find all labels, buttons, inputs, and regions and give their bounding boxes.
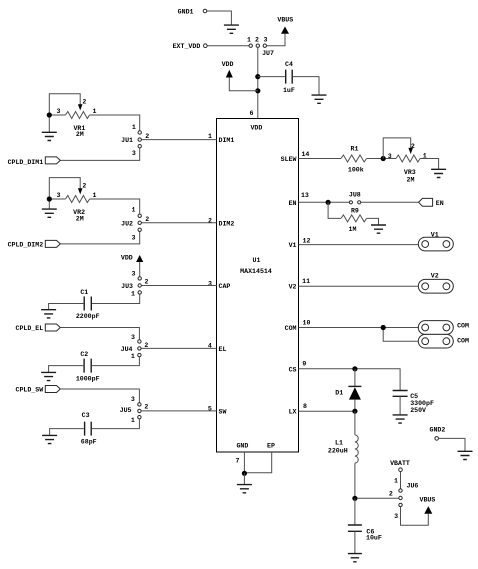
wire U1 CS pin9: [299, 369, 401, 391]
ground (C3): [42, 435, 57, 443]
wire VR2 to ground: [48, 202, 50, 210]
svg-text:2: 2: [255, 37, 259, 44]
svg-text:68pF: 68pF: [81, 439, 97, 446]
svg-text:R9: R9: [351, 208, 359, 215]
svg-text:2: 2: [145, 133, 149, 140]
svg-text:D1: D1: [335, 389, 343, 396]
svg-text:1: 1: [132, 124, 136, 131]
resistor R1: [341, 155, 367, 162]
potentiometer VR2: [49, 198, 65, 200]
svg-text:2: 2: [144, 404, 148, 411]
power VDD arrow (top): [226, 70, 233, 78]
svg-text:3: 3: [388, 153, 392, 160]
potentiometer VR3: [396, 155, 420, 162]
ground (C6): [348, 554, 362, 562]
svg-text:VBUS: VBUS: [277, 17, 293, 24]
wire U1 SLEW pin14: [299, 158, 342, 160]
svg-text:C3: C3: [82, 412, 90, 419]
resistor R9: [328, 202, 341, 218]
node EN junction: [326, 200, 331, 205]
svg-text:SW: SW: [219, 408, 227, 415]
node LX junction: [352, 409, 357, 414]
svg-text:EXT_VDD: EXT_VDD: [173, 43, 201, 50]
svg-text:8: 8: [303, 403, 307, 410]
svg-text:11: 11: [302, 278, 310, 285]
capacitor C1: [84, 297, 91, 311]
IC U1 MAX14514: [217, 119, 299, 453]
svg-text:1: 1: [131, 291, 135, 298]
svg-text:L1: L1: [335, 440, 343, 447]
svg-text:2M: 2M: [76, 131, 84, 138]
svg-text:7: 7: [236, 458, 240, 465]
ground (C1): [41, 310, 56, 318]
terminal VBATT: [399, 468, 403, 472]
wire JU5 pin1 to C3: [92, 419, 139, 429]
svg-text:GND1: GND1: [178, 9, 194, 16]
power VDD arrow (JU3): [136, 255, 143, 262]
svg-text:JU1: JU1: [121, 137, 133, 144]
node VR2 wiper junction: [47, 196, 52, 201]
wire GND1 to ground: [207, 11, 232, 25]
svg-text:1: 1: [423, 153, 427, 160]
ground (GND2): [458, 451, 473, 459]
svg-text:LX: LX: [289, 409, 297, 416]
svg-text:EP: EP: [267, 443, 275, 450]
svg-text:VBATT: VBATT: [390, 460, 410, 467]
svg-text:1: 1: [394, 478, 398, 485]
wire CPLD_SW to JU5 pin3: [60, 389, 139, 403]
svg-text:COM: COM: [285, 325, 297, 332]
jumper JU7: [249, 44, 252, 47]
ground (U1 GND/EP): [237, 485, 252, 493]
svg-text:VR3: VR3: [404, 169, 416, 176]
svg-text:3: 3: [132, 150, 136, 157]
wire JU4 pin1 to C2: [92, 357, 139, 366]
svg-text:3: 3: [132, 235, 136, 242]
svg-text:3: 3: [394, 513, 398, 520]
svg-text:10: 10: [303, 319, 311, 326]
svg-text:100k: 100k: [348, 166, 364, 173]
node CS junction: [352, 366, 357, 371]
svg-text:JU8: JU8: [349, 191, 361, 198]
capacitor C6: [354, 498, 356, 525]
diode D1: [354, 369, 356, 387]
wire VDD arrow to junction: [229, 78, 257, 91]
wire JU1 pin2 to U1 DIM1: [142, 139, 217, 141]
inductor L1: [354, 411, 356, 435]
svg-text:3: 3: [132, 270, 136, 277]
svg-text:C1: C1: [80, 289, 88, 296]
svg-text:VDD: VDD: [222, 61, 234, 68]
svg-text:C5: C5: [410, 393, 418, 400]
svg-text:CPLD_EL: CPLD_EL: [15, 325, 43, 332]
svg-text:1M: 1M: [349, 226, 357, 233]
svg-text:2200pF: 2200pF: [76, 313, 100, 320]
svg-text:JU5: JU5: [120, 407, 132, 414]
svg-text:250V: 250V: [410, 407, 426, 414]
svg-text:VDD: VDD: [121, 255, 133, 262]
svg-text:DIM2: DIM2: [219, 220, 235, 227]
svg-text:JU3: JU3: [121, 283, 133, 290]
wire JU6 pin3 to VBUS: [401, 507, 429, 526]
terminal EXT_VDD: [204, 44, 208, 48]
port EN: [419, 198, 433, 206]
svg-text:2: 2: [389, 491, 393, 498]
ground (VR1): [42, 132, 57, 140]
jumper JU3: [138, 277, 141, 280]
terminal GND2: [435, 437, 439, 441]
svg-text:V2: V2: [289, 284, 297, 291]
svg-text:DIM1: DIM1: [219, 137, 235, 144]
svg-text:1: 1: [208, 133, 212, 140]
wire JU7 pin2 down to U1 VDD pin 6: [257, 47, 259, 118]
wire JU3 pin2 to U1 CAP: [142, 285, 217, 287]
svg-text:10uF: 10uF: [366, 535, 382, 542]
svg-text:V1: V1: [289, 242, 297, 249]
svg-text:VBUS: VBUS: [419, 497, 435, 504]
ground (VR2): [42, 209, 57, 217]
wire CPLD_EL to JU4 pin3: [60, 328, 139, 340]
svg-text:JU6: JU6: [407, 482, 419, 489]
wire U1 COM pin10: [299, 327, 419, 329]
wire JU7 pin3 to VBUS: [267, 34, 286, 46]
wire JU2 pin2 to U1 DIM2: [142, 222, 217, 224]
jumper JU1: [138, 131, 141, 134]
wire JU1 pin3 to CPLD_DIM1: [60, 148, 139, 160]
svg-text:VDD: VDD: [250, 125, 262, 132]
wire EXT_VDD to JU7 pin1: [207, 45, 249, 47]
port CPLD_EL: [45, 324, 60, 331]
ground (GND1): [224, 25, 239, 33]
jumper JU5: [138, 403, 141, 406]
power VBUS arrow (top): [281, 27, 289, 34]
node VDD junction 2: [255, 88, 260, 93]
svg-text:1: 1: [247, 37, 251, 44]
svg-text:2: 2: [145, 278, 149, 285]
svg-text:2: 2: [411, 143, 415, 150]
svg-text:12: 12: [303, 238, 311, 245]
svg-text:2M: 2M: [407, 177, 415, 184]
svg-text:3: 3: [131, 396, 135, 403]
jumper JU4: [138, 340, 141, 343]
node VR1 wiper junction: [47, 112, 52, 117]
wire VR1 to ground: [48, 118, 50, 133]
svg-text:3: 3: [57, 192, 61, 199]
svg-text:1: 1: [131, 353, 135, 360]
svg-text:1: 1: [93, 192, 97, 199]
power VBUS arrow (bottom): [424, 506, 432, 514]
ground (C4): [312, 95, 327, 103]
svg-text:CAP: CAP: [219, 283, 231, 290]
svg-text:COM: COM: [457, 323, 469, 330]
svg-text:MAX14514: MAX14514: [240, 268, 272, 275]
svg-text:2: 2: [208, 217, 212, 224]
svg-text:14: 14: [301, 151, 309, 158]
svg-text:COM: COM: [457, 337, 469, 344]
svg-text:JU4: JU4: [121, 346, 133, 353]
terminal GND1: [203, 9, 207, 13]
svg-text:2: 2: [82, 98, 86, 105]
wire JU3 pin1 to C1: [92, 294, 140, 303]
svg-text:1uF: 1uF: [283, 87, 295, 94]
wire U1 EN pin13: [299, 201, 350, 203]
node COM junction: [381, 325, 386, 330]
ground (C5): [393, 415, 408, 423]
node SLEW/VR3 junction: [381, 156, 386, 161]
svg-text:CPLD_DIM1: CPLD_DIM1: [8, 159, 44, 166]
svg-text:13: 13: [301, 192, 309, 199]
jumper JU2: [138, 214, 141, 217]
svg-text:CPLD_DIM2: CPLD_DIM2: [8, 242, 44, 249]
svg-text:2: 2: [145, 216, 149, 223]
wire U1 V2 pin11: [299, 285, 419, 287]
wire JU2 pin3 to CPLD_DIM2: [60, 232, 139, 244]
svg-text:9: 9: [302, 361, 306, 368]
jumper JU6: [399, 489, 402, 492]
svg-text:V1: V1: [431, 232, 439, 239]
svg-text:EN: EN: [289, 200, 297, 207]
connector COM (top): [418, 321, 453, 335]
svg-text:JU2: JU2: [121, 220, 133, 227]
svg-text:GND2: GND2: [429, 427, 445, 434]
svg-text:2M: 2M: [76, 216, 84, 223]
svg-text:R1: R1: [351, 146, 359, 153]
svg-text:6: 6: [250, 110, 254, 117]
svg-text:JU7: JU7: [262, 50, 274, 57]
wire U1 GND pin7 and EP to ground: [244, 452, 271, 473]
capacitor C5: [393, 391, 408, 397]
svg-text:U1: U1: [253, 257, 261, 264]
svg-text:CPLD_SW: CPLD_SW: [15, 387, 43, 394]
wire U1 LX pin8: [299, 410, 355, 412]
wire JU4 pin2 to U1 EL: [141, 347, 216, 349]
svg-text:2: 2: [82, 182, 86, 189]
svg-text:C2: C2: [80, 351, 88, 358]
port CPLD_SW: [45, 386, 60, 393]
svg-text:1000pF: 1000pF: [76, 376, 100, 383]
capacitor C2: [84, 359, 91, 373]
wire U1 V1 pin12: [299, 244, 419, 246]
connector V2: [418, 279, 453, 293]
node VDD junction 1: [255, 74, 260, 79]
svg-text:EL: EL: [219, 346, 227, 353]
ground (R9): [371, 225, 386, 233]
wire JU5 pin2 to U1 SW: [141, 410, 216, 412]
svg-text:3: 3: [131, 334, 135, 341]
ground (VR3): [431, 169, 446, 177]
ground (C2): [41, 372, 56, 380]
potentiometer VR1: [49, 114, 65, 116]
capacitor C4: [258, 76, 285, 78]
svg-text:C4: C4: [285, 61, 293, 68]
jumper JU8: [349, 201, 352, 204]
svg-text:V2: V2: [431, 272, 439, 279]
connector COM (bottom): [418, 334, 453, 348]
wire VDD to JU3 pin3: [139, 262, 141, 277]
connector V1: [418, 237, 453, 251]
svg-text:3: 3: [264, 37, 268, 44]
svg-text:1: 1: [93, 108, 97, 115]
svg-text:3: 3: [57, 108, 61, 115]
svg-text:220uH: 220uH: [328, 447, 348, 454]
capacitor C3: [85, 422, 92, 436]
port CPLD_DIM1: [45, 157, 60, 164]
svg-text:CS: CS: [289, 366, 297, 373]
svg-text:SLEW: SLEW: [281, 156, 297, 163]
node LX/C6/JU6 junction: [355, 497, 399, 499]
svg-text:3: 3: [208, 280, 212, 287]
svg-text:EN: EN: [436, 200, 444, 207]
svg-text:1: 1: [132, 207, 136, 214]
node GND/EP junction: [242, 471, 247, 476]
svg-text:1: 1: [131, 417, 135, 424]
port CPLD_DIM2: [45, 240, 60, 247]
svg-text:GND: GND: [236, 443, 248, 450]
